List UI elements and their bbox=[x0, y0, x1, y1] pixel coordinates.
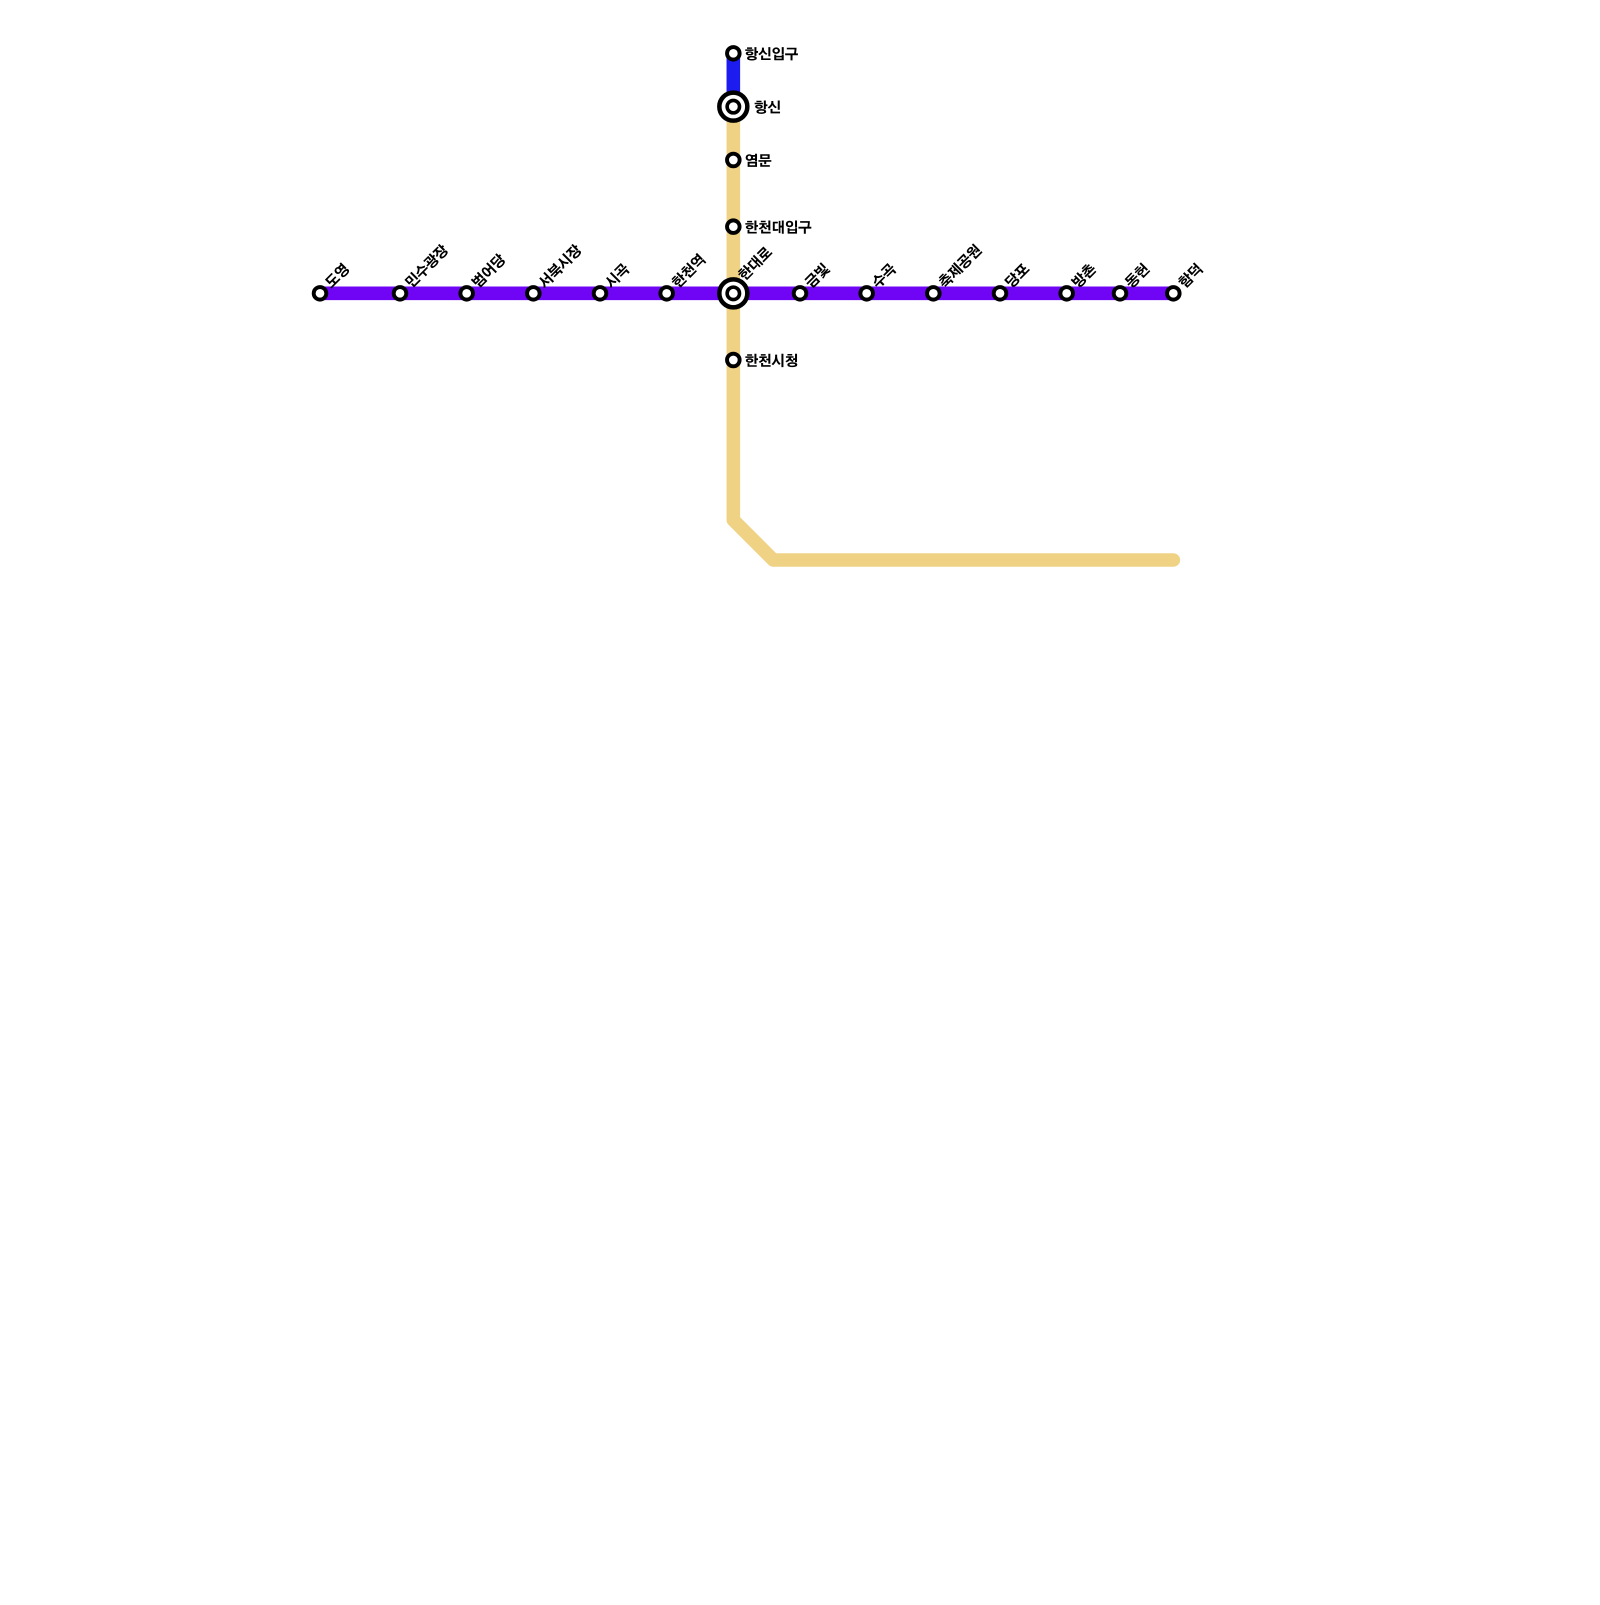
label 동헌 bbox=[1123, 262, 1150, 289]
label 한천대입구 bbox=[745, 220, 811, 233]
station 한천시청 bbox=[727, 354, 740, 367]
label 방촌 bbox=[1070, 262, 1097, 289]
line: blue Line 2 branch bbox=[727, 53, 741, 106]
label 시곡 bbox=[603, 262, 631, 290]
label 한천시청 bbox=[745, 354, 797, 367]
line: purple Line 1 bbox=[320, 287, 1173, 301]
station 도영 bbox=[314, 287, 327, 300]
station 범어당 bbox=[460, 287, 473, 300]
label 축제공원 bbox=[936, 243, 983, 290]
station 동헌 bbox=[1114, 287, 1127, 300]
station 한천대입구 bbox=[727, 220, 740, 233]
label 당포 bbox=[1004, 262, 1031, 289]
label 염문 bbox=[746, 154, 772, 167]
label 한천역 bbox=[670, 253, 706, 289]
station 항신입구 bbox=[727, 47, 740, 60]
label 금빛 bbox=[803, 262, 831, 290]
label 서북시장 bbox=[536, 243, 583, 290]
interchange station 항신 bbox=[719, 93, 747, 121]
interchange station 한대로 bbox=[719, 279, 747, 307]
label 민수광장 bbox=[404, 243, 450, 289]
station 서북시장 bbox=[527, 287, 540, 300]
station 수곡 bbox=[860, 287, 873, 300]
station 염문 bbox=[727, 154, 740, 167]
label 함덕 bbox=[1177, 262, 1204, 289]
station 축제공원 bbox=[927, 287, 940, 300]
station 당포 bbox=[994, 287, 1007, 300]
line: tan Line 3 (Hangcheon) bbox=[733, 107, 1173, 560]
label 범어당 bbox=[470, 252, 507, 289]
label 항신입구 bbox=[745, 47, 798, 60]
station 시곡 bbox=[594, 287, 607, 300]
label 도영 bbox=[323, 262, 350, 289]
station 민수광장 bbox=[394, 287, 407, 300]
label 수곡 bbox=[870, 262, 898, 290]
label 한대로 bbox=[736, 245, 773, 282]
station 한천역 bbox=[660, 287, 673, 300]
station 함덕 bbox=[1167, 287, 1180, 300]
station 방촌 bbox=[1060, 287, 1073, 300]
station 금빛 bbox=[794, 287, 807, 300]
label 항신 bbox=[755, 100, 780, 113]
